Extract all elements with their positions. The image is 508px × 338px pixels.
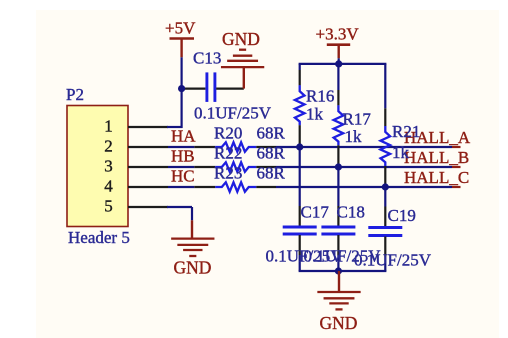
svg-text:1k: 1k [306, 105, 324, 124]
svg-text:HALL_C: HALL_C [404, 168, 469, 187]
svg-text:R22: R22 [214, 144, 242, 163]
svg-text:HA: HA [171, 127, 196, 146]
svg-text:Header 5: Header 5 [68, 228, 130, 247]
svg-text:2: 2 [104, 137, 113, 156]
svg-text:C17: C17 [301, 203, 330, 222]
svg-text:1k: 1k [392, 143, 410, 162]
svg-text:C13: C13 [193, 49, 221, 68]
svg-text:R20: R20 [214, 124, 242, 143]
svg-text:HALL_B: HALL_B [404, 148, 469, 167]
svg-text:1k: 1k [345, 127, 363, 146]
svg-text:3: 3 [104, 157, 113, 176]
svg-text:HB: HB [171, 147, 195, 166]
svg-text:68R: 68R [257, 144, 286, 163]
svg-text:P2: P2 [66, 85, 84, 104]
svg-text:R23: R23 [214, 164, 242, 183]
svg-text:68R: 68R [257, 124, 286, 143]
svg-text:R16: R16 [306, 87, 334, 106]
svg-text:C19: C19 [388, 206, 416, 225]
svg-text:R21: R21 [392, 122, 420, 141]
svg-text:+3.3V: +3.3V [316, 25, 360, 44]
svg-text:5: 5 [104, 197, 113, 216]
svg-text:R17: R17 [343, 110, 372, 129]
svg-text:GND: GND [320, 313, 358, 333]
svg-text:1: 1 [104, 117, 113, 136]
svg-text:GND: GND [222, 29, 260, 49]
svg-text:0.1UF/25V: 0.1UF/25V [194, 104, 272, 123]
svg-text:0.1UF/25V: 0.1UF/25V [354, 251, 432, 270]
svg-text:C18: C18 [337, 203, 365, 222]
svg-text:+5V: +5V [165, 19, 196, 38]
svg-text:GND: GND [174, 258, 212, 278]
svg-text:HC: HC [171, 167, 195, 186]
svg-text:4: 4 [104, 177, 113, 196]
svg-text:68R: 68R [257, 164, 286, 183]
